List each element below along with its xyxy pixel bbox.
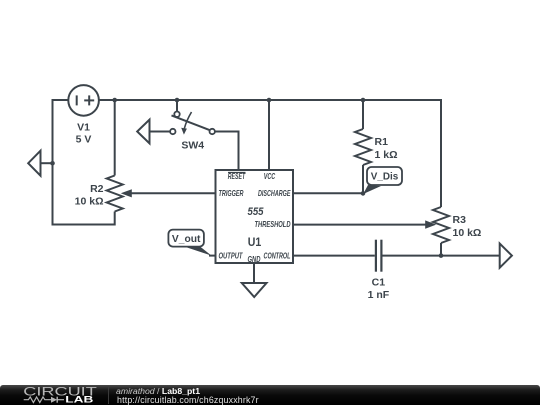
CircuitLab logo	[0, 385, 108, 405]
wire	[293, 255, 375, 257]
wire	[362, 100, 364, 129]
wire	[440, 99, 442, 207]
flag (output net flag)	[500, 244, 512, 268]
capacitor C1	[376, 240, 382, 272]
wire	[238, 131, 240, 171]
voltage source V1	[68, 85, 99, 116]
SW4 throw flag	[137, 120, 149, 144]
wire	[41, 162, 53, 164]
footer bar	[0, 385, 540, 405]
svg-text:R3: R3	[453, 214, 467, 226]
svg-text:THRESHOLD: THRESHOLD	[255, 220, 291, 229]
R3 value label	[453, 214, 482, 239]
wire	[52, 99, 54, 225]
svg-text:5 V: 5 V	[76, 134, 92, 146]
resistor R1	[355, 129, 371, 165]
svg-text:1 kΩ: 1 kΩ	[375, 149, 398, 161]
SW4 blade	[172, 115, 211, 130]
RESET overline	[228, 171, 246, 173]
wire	[440, 243, 442, 256]
node junction dots	[50, 98, 443, 258]
footer title	[116, 386, 200, 396]
wire	[293, 224, 427, 226]
resistor R2 (potentiometer)	[107, 176, 123, 212]
svg-text:U1: U1	[248, 235, 262, 249]
svg-text:GND: GND	[248, 255, 261, 264]
svg-text:10 kΩ: 10 kΩ	[75, 196, 104, 208]
ground	[242, 283, 267, 297]
wire	[176, 100, 178, 112]
svg-text:TRIGGER: TRIGGER	[219, 189, 244, 198]
R2 wiper arrow	[121, 189, 132, 197]
svg-text:C1: C1	[372, 277, 386, 289]
wire	[150, 131, 171, 133]
switch SW4 contacts	[170, 112, 215, 135]
svg-text:CONTROL: CONTROL	[264, 251, 291, 260]
V1 value label	[76, 122, 92, 146]
node V_Dis flag	[363, 167, 402, 194]
wire	[99, 99, 441, 101]
wire	[382, 255, 441, 257]
wire	[362, 165, 364, 193]
R2 value label	[75, 183, 104, 208]
svg-text:RESET: RESET	[228, 172, 246, 181]
footer url	[117, 395, 259, 405]
wire	[215, 131, 239, 133]
SW4 actuator arrow	[181, 112, 191, 135]
wire	[53, 99, 69, 101]
node V_out flag	[168, 230, 216, 256]
wire	[131, 192, 216, 194]
svg-text:555: 555	[248, 206, 265, 218]
svg-text:DISCHARGE: DISCHARGE	[258, 189, 291, 198]
svg-text:V_out: V_out	[172, 234, 201, 245]
R3 wiper arrow	[425, 220, 436, 228]
footer separator	[108, 386, 109, 404]
svg-text:VCC: VCC	[264, 172, 276, 181]
C1 value label	[368, 277, 390, 301]
svg-text:10 kΩ: 10 kΩ	[453, 227, 482, 239]
resistor R3 (potentiometer)	[433, 207, 449, 243]
wire	[253, 263, 255, 283]
R1 value label	[375, 136, 398, 161]
svg-text:V1: V1	[77, 122, 90, 134]
wire	[293, 192, 363, 194]
555 pin labels	[219, 172, 291, 264]
svg-text:1 nF: 1 nF	[368, 289, 390, 301]
svg-text:SW4: SW4	[181, 140, 204, 152]
op-amp U1 box (555 timer)	[216, 170, 294, 263]
svg-text:OUTPUT: OUTPUT	[219, 251, 244, 260]
wire	[441, 255, 500, 257]
wire	[114, 212, 116, 226]
svg-text:V_Dis: V_Dis	[371, 171, 399, 182]
svg-text:R2: R2	[90, 183, 104, 195]
svg-text:LAB: LAB	[65, 394, 94, 404]
svg-text:R1: R1	[375, 136, 389, 148]
wire	[114, 100, 116, 176]
wire	[52, 224, 115, 226]
wire	[268, 100, 270, 170]
flag (left net flag)	[28, 151, 40, 176]
